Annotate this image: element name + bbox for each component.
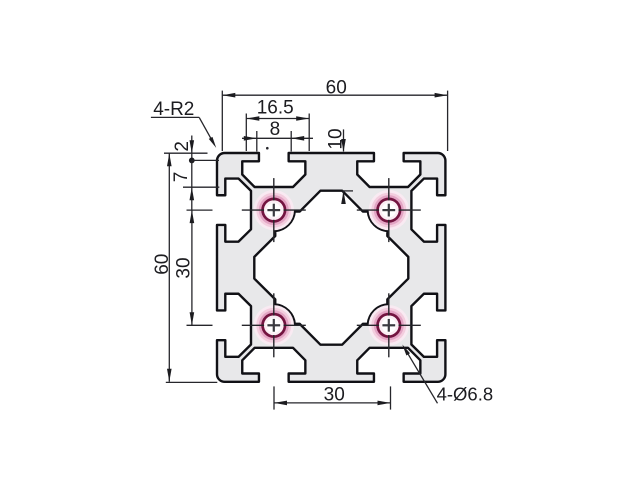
- hole top-left pink highlight glow: [254, 190, 294, 230]
- label 4-dia6.8 leader: [405, 349, 438, 404]
- dim 2 dot: [189, 158, 195, 164]
- svg-text:2: 2: [172, 141, 193, 152]
- hole top-right center mark: [382, 209, 395, 211]
- dim 16.5 line: [246, 118, 309, 120]
- dim 60 left line: [168, 153, 170, 382]
- hole bottom-left pink highlight glow: [254, 305, 294, 345]
- dim 7 line: [191, 160, 193, 210]
- svg-text:4-Ø6.8: 4-Ø6.8: [437, 384, 494, 405]
- svg-text:10: 10: [326, 128, 347, 149]
- svg-text:8: 8: [270, 119, 281, 140]
- hole top-left center mark: [267, 209, 280, 211]
- dim 10 extension line at cavity flat: [342, 190, 353, 192]
- hole bottom-right center mark: [382, 324, 395, 326]
- dim 2 line: [191, 136, 193, 161]
- label 4-R2 underline: [151, 116, 199, 118]
- dim 30 bottom line: [274, 402, 391, 404]
- hole bottom-left ring: [261, 313, 286, 338]
- hole top-right ring: [376, 198, 401, 223]
- stray center tick: [266, 147, 269, 150]
- svg-text:30: 30: [173, 257, 194, 278]
- hole bottom-right ring: [376, 313, 401, 338]
- svg-text:30: 30: [324, 384, 345, 405]
- dim 30 bottom extension lines: [273, 386, 275, 409]
- svg-text:60: 60: [326, 77, 347, 98]
- dim 10 line lower segment: [343, 192, 345, 203]
- dim 60 left extension lines: [164, 152, 208, 154]
- label 4-R2 leader: [199, 117, 212, 141]
- dim 16.5 extension lines: [245, 114, 247, 152]
- hole top-left ring: [261, 198, 286, 223]
- dim 60 top extension lines: [221, 91, 223, 151]
- hole bottom-left center mark: [267, 324, 280, 326]
- dim 8 extension lines: [256, 131, 258, 152]
- dim 8 line with outside arrows: [242, 137, 313, 139]
- hole top-right pink highlight glow: [369, 190, 409, 230]
- svg-text:7: 7: [171, 172, 192, 183]
- aluminum extrusion profile body with T-slots and central cavity: [217, 153, 445, 382]
- dim 10 line upper segment: [343, 129, 345, 151]
- dim 2 extension to lip: [192, 159, 219, 161]
- hole bottom-right pink highlight glow: [369, 305, 409, 345]
- dim 30 left line: [191, 210, 193, 325]
- dim 60 top line: [222, 94, 447, 96]
- dim 7 extension at slot bottom: [183, 186, 219, 188]
- svg-text:60: 60: [152, 254, 173, 275]
- dim 30 left extension lines: [187, 209, 213, 211]
- svg-text:16.5: 16.5: [257, 98, 294, 119]
